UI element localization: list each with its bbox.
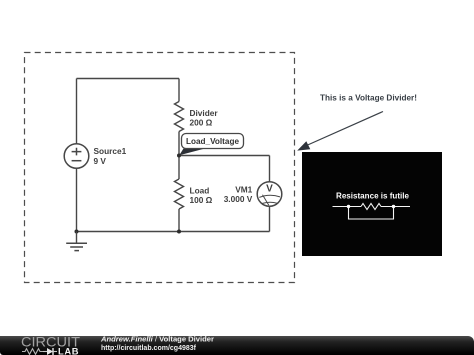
ground bbox=[66, 232, 87, 251]
wire left vertical upper bbox=[76, 79, 78, 144]
logo resistor squiggle bbox=[22, 349, 43, 355]
wire right vertical upper bbox=[178, 79, 180, 102]
junction node at load bottom bbox=[177, 230, 181, 234]
dashed annotation box bbox=[25, 53, 295, 283]
junction node at source bottom bbox=[75, 230, 79, 234]
label Source1 9 V bbox=[94, 146, 127, 166]
voltage source Source1 bbox=[64, 144, 89, 169]
voltmeter VM1 bbox=[257, 182, 282, 207]
label Load 100 Ω bbox=[190, 185, 213, 205]
wire voltmeter bottom bbox=[269, 207, 271, 232]
wire bottom horizontal bbox=[77, 231, 270, 233]
logo diode bbox=[43, 348, 57, 355]
wire top horizontal bbox=[77, 78, 180, 80]
image junction left bbox=[347, 205, 350, 208]
image junction right bbox=[392, 205, 395, 208]
wire right vertical middle bbox=[178, 132, 180, 180]
annotation arrow bbox=[297, 112, 383, 151]
svg-text:LAB: LAB bbox=[58, 346, 79, 355]
wire node to voltmeter bbox=[179, 155, 270, 157]
resistor Divider bbox=[175, 102, 184, 132]
label VM1 3.000 V bbox=[224, 184, 253, 204]
resistor Load bbox=[175, 179, 184, 209]
image resistor (futile) bbox=[333, 204, 411, 210]
svg-text:http://circuitlab.com/cg4983f: http://circuitlab.com/cg4983f bbox=[101, 343, 196, 352]
wire left vertical lower bbox=[76, 169, 78, 232]
image wire short loop bbox=[349, 207, 394, 220]
footer bar bbox=[0, 336, 474, 355]
node Load_Voltage flag bbox=[179, 134, 243, 156]
junction node Load_Voltage bbox=[177, 154, 181, 158]
wire right vertical lower bbox=[178, 209, 180, 232]
label Divider 200 Ω bbox=[190, 108, 219, 128]
wire voltmeter top bbox=[269, 156, 271, 183]
image box black bbox=[302, 152, 442, 256]
